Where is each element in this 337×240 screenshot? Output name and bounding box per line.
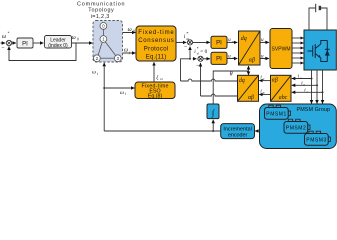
svg-text:d: d <box>197 51 199 55</box>
junction dot <box>189 58 191 60</box>
SVPWM block <box>270 29 292 69</box>
theta wire from integrator to transforms <box>213 71 248 104</box>
wire PI to Leader <box>33 42 43 44</box>
communication topology box <box>93 21 123 63</box>
node omegaj label <box>124 48 130 55</box>
node omega_i label (ESO input) <box>120 90 126 96</box>
wire abc to dq2 (i alpha) <box>259 80 270 82</box>
wire theta down into dq2 <box>248 71 250 75</box>
motor PMSM2 <box>284 119 310 133</box>
wire PId to dq1 <box>227 58 237 60</box>
wire encoder line up into integrator <box>212 120 214 131</box>
node i*_d = 0 label <box>194 47 207 56</box>
svg-text:αβ: αβ <box>248 95 254 101</box>
svg-text:Fixed-time: Fixed-time <box>138 30 174 36</box>
svg-text:abc: abc <box>279 95 288 101</box>
svg-text:0: 0 <box>77 37 79 41</box>
node 0 <box>100 23 107 30</box>
svg-text:0: 0 <box>133 30 135 34</box>
wire feedback loop left <box>9 43 76 61</box>
node omega0 label to consensus <box>128 27 135 33</box>
svg-text:−: − <box>196 63 199 69</box>
wire junction1 to PI q <box>193 41 210 43</box>
svg-text:i=1,2,3: i=1,2,3 <box>91 14 110 20</box>
motor PMSM3 <box>305 131 331 145</box>
svg-text:β: β <box>264 56 267 60</box>
svg-text:Communication: Communication <box>77 1 125 7</box>
wire feedback up into junction1 <box>189 47 191 59</box>
svg-text:PMSM Group: PMSM Group <box>297 107 331 113</box>
junction dot speed riser <box>103 87 105 89</box>
wire topology to consensus (omega0) <box>123 32 136 34</box>
node xi_i2 label <box>156 75 163 81</box>
wire feedback up into junction2 <box>200 63 202 96</box>
node i_beta label <box>260 90 264 95</box>
wire ib to abc transform <box>292 84 317 86</box>
node i_a label <box>298 75 302 80</box>
node i*_w reference label <box>184 31 190 41</box>
node u_d label <box>228 54 234 59</box>
svg-text:=: = <box>200 50 203 55</box>
PI controller d axis <box>211 52 227 64</box>
svg-text:ω: ω <box>92 70 96 76</box>
svg-text:q: q <box>232 40 234 44</box>
wire PIq to dq1 <box>227 41 237 43</box>
svg-text:−: − <box>2 45 5 51</box>
node 2 <box>94 55 101 62</box>
node i_c label <box>304 89 308 94</box>
wire input to left summing junction <box>1 42 6 44</box>
wire junction2 to PI d <box>203 58 210 60</box>
svg-text:PMSM3: PMSM3 <box>306 137 326 143</box>
phase branch dots <box>311 78 313 80</box>
node u_alpha label <box>261 38 267 43</box>
svg-text:i: i <box>97 72 98 76</box>
svg-text:encoder: encoder <box>228 133 248 139</box>
svg-text:PI: PI <box>216 41 222 47</box>
incremental encoder block <box>221 124 255 139</box>
summing junction left (speed error) <box>6 40 11 45</box>
svg-text:αβ: αβ <box>249 58 255 64</box>
diode triangle <box>325 50 330 56</box>
svg-text:−: − <box>184 45 187 51</box>
node i_alpha label <box>260 76 264 81</box>
svg-text:Protocol: Protocol <box>144 46 169 52</box>
Communication Topology title <box>77 1 125 20</box>
node i_b label <box>301 82 305 87</box>
node omega_i label (riser) <box>92 70 98 76</box>
wire PMSM group to encoder <box>255 130 259 132</box>
wire speed feedback long horizontal <box>104 130 221 132</box>
PI controller q axis <box>211 36 227 48</box>
Fixed-time Consensus Protocol block <box>136 26 176 61</box>
dq to alpha-beta transform (voltage) <box>239 31 261 65</box>
wires SVPWM to inverter (6 gate signals) <box>292 38 304 63</box>
wire abc to dq2 (i beta) <box>259 94 270 96</box>
svg-text:*: * <box>197 47 199 51</box>
svg-text:dq: dq <box>239 78 245 84</box>
svg-text:SVPWM: SVPWM <box>272 47 291 53</box>
svg-text:PI: PI <box>216 57 222 63</box>
node u_beta label <box>261 54 267 59</box>
integrator block <box>207 104 219 119</box>
svg-text:Eq.(8): Eq.(8) <box>148 93 163 99</box>
svg-text:αβ: αβ <box>272 78 278 84</box>
wire topology to consensus (omegaj) <box>123 52 136 54</box>
svg-text:PMSM1: PMSM1 <box>266 111 286 117</box>
wire id feedback horizontal with hop <box>201 94 238 96</box>
svg-text:i: i <box>125 92 126 96</box>
node 3 <box>114 55 121 62</box>
motor PMSM1 <box>265 105 291 119</box>
svg-text:j: j <box>128 50 130 54</box>
svg-text:PI: PI <box>22 41 28 47</box>
wire into junction2 from left <box>193 58 197 60</box>
wire consensus output to junction 1 <box>176 41 186 43</box>
svg-text:ω: ω <box>2 34 6 40</box>
summing junction 2 (d axis) <box>198 56 203 61</box>
svg-text:ω: ω <box>120 90 124 96</box>
Leader (index 0) block <box>45 36 72 50</box>
graph edges <box>98 29 116 58</box>
Fixed-time ESO block <box>135 82 175 99</box>
svg-text:dq: dq <box>241 36 247 42</box>
svg-text:Eq.(11): Eq.(11) <box>146 55 167 61</box>
wire dq1 to SVPWM top <box>260 41 269 43</box>
wire dq1 to SVPWM bottom <box>260 58 269 60</box>
svg-text:*: * <box>186 31 188 36</box>
svg-text:ω: ω <box>72 35 76 41</box>
wire ic to abc transform <box>292 91 323 93</box>
svg-text:*: * <box>7 32 9 36</box>
svg-text:(index 0): (index 0) <box>48 43 68 49</box>
IGBT emitter arrow <box>318 55 321 58</box>
IGBT symbol <box>308 41 330 62</box>
node omega0 output label <box>72 35 79 41</box>
summing junction 1 (q axis) <box>187 40 192 45</box>
wire iq feedback horizontal with hops <box>181 79 238 81</box>
svg-text:Topology: Topology <box>88 8 114 14</box>
dq transform (current) <box>238 75 259 101</box>
phase wires inverter to PMSM group <box>312 70 323 104</box>
DC source bars <box>315 4 317 12</box>
wire junction to PI <box>12 42 16 44</box>
junction dot encoder line <box>212 130 214 132</box>
svg-text:d: d <box>232 56 234 60</box>
svg-text:α: α <box>265 40 267 44</box>
wire speed feedback riser to topology <box>103 63 105 131</box>
inverter block <box>304 30 336 70</box>
svg-text:θ: θ <box>230 72 233 78</box>
svg-text:i2: i2 <box>160 77 163 81</box>
alpha-beta to abc transform (current) <box>271 75 292 101</box>
svg-text:0: 0 <box>205 50 208 55</box>
PMSM group block <box>260 104 337 149</box>
wire ia to abc transform <box>292 78 312 80</box>
DC link wires <box>309 8 327 30</box>
node u_q label <box>228 38 234 43</box>
wire theta up into dq1 <box>248 66 250 71</box>
node 1 <box>100 36 107 43</box>
svg-text:Consensus: Consensus <box>138 38 174 44</box>
svg-text:Incremental: Incremental <box>223 126 252 132</box>
wire leader output to topology <box>72 42 93 44</box>
wire speed to ESO <box>104 87 134 89</box>
svg-text:ξ: ξ <box>156 75 159 81</box>
svg-text:PMSM2: PMSM2 <box>286 125 306 131</box>
wire ESO output up to consensus <box>153 62 155 82</box>
node omega* input label <box>2 32 9 40</box>
PI controller (leader) <box>17 38 33 48</box>
wire iq feedback riser <box>181 59 191 81</box>
